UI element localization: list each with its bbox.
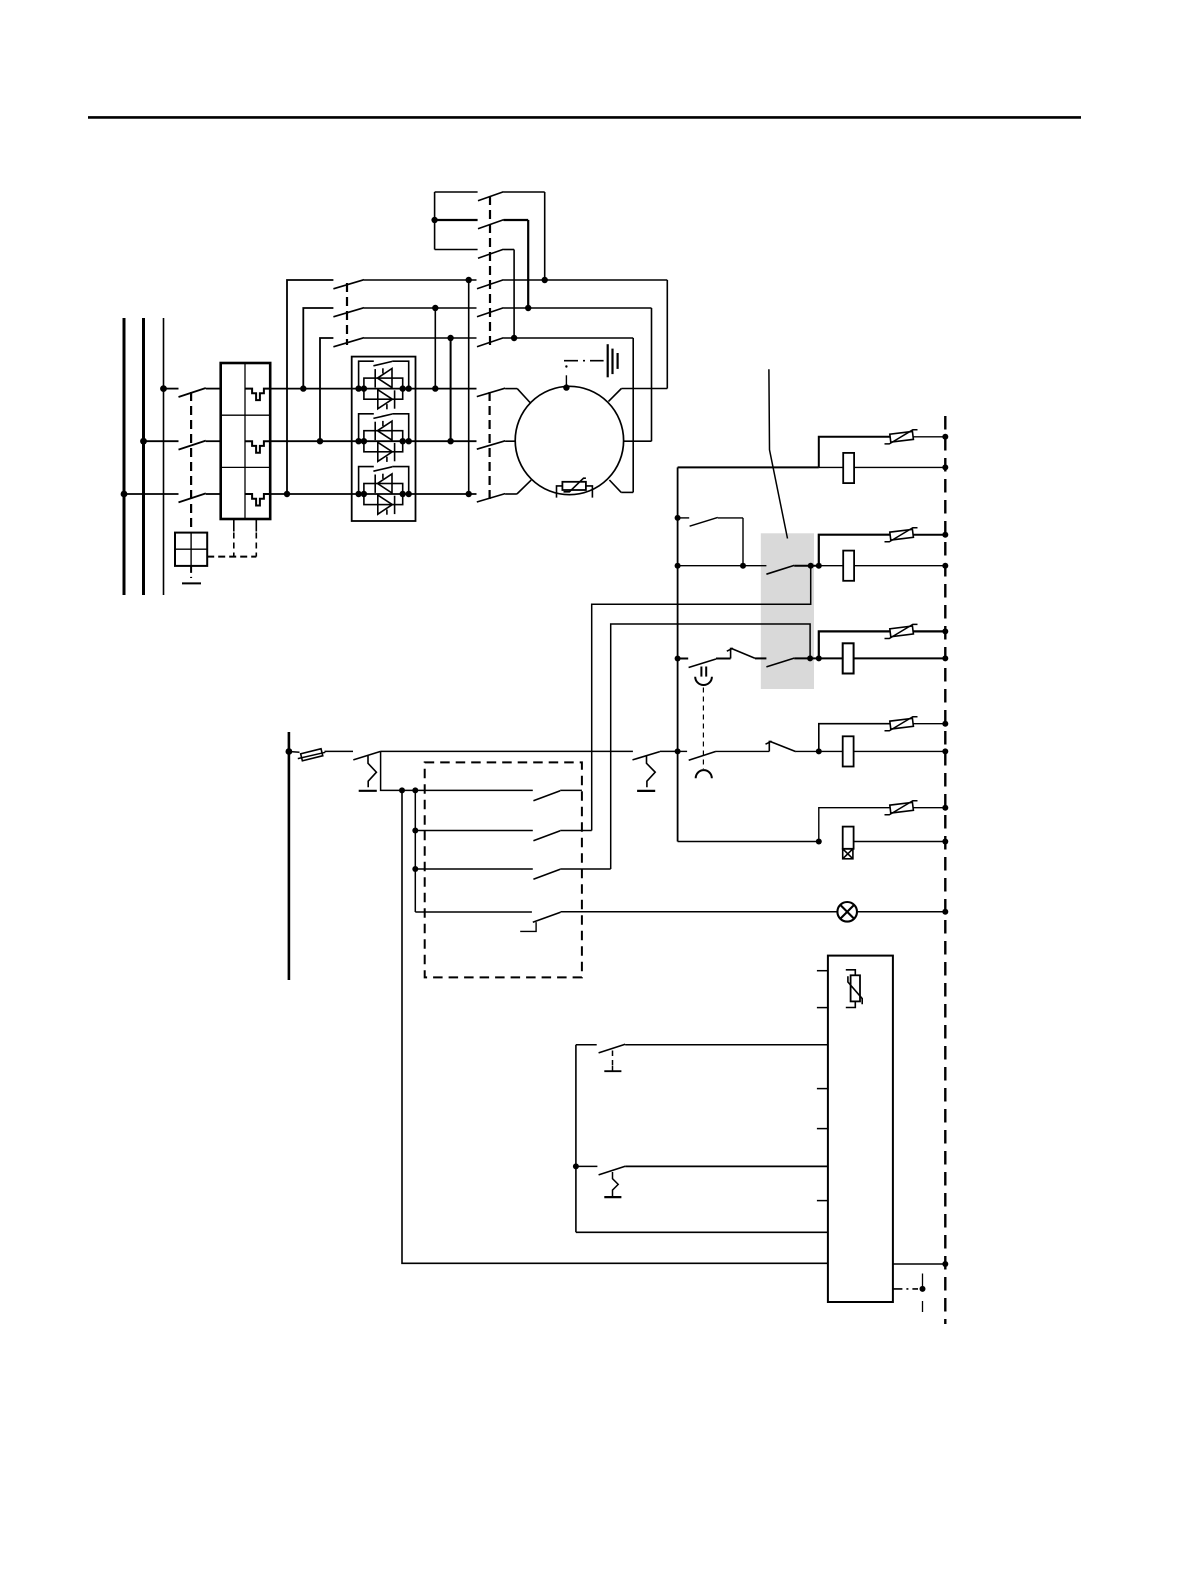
node rung4 (816, 748, 822, 754)
motor contactor linkage (dashed) (489, 392, 491, 503)
node program row2 (412, 828, 418, 834)
leader line to highlighted contacts (769, 369, 788, 538)
program switch unit (dashed box) (425, 762, 582, 977)
rung3 contact B (reverse) (727, 648, 767, 659)
varistor branch rung4 (819, 724, 891, 752)
node rail unit out (942, 1261, 948, 1267)
node K3 out2 (525, 305, 531, 311)
dash-dot line to chassis (564, 360, 604, 362)
varistor R3 (885, 624, 918, 638)
contactor K1 linkage (dashed) (346, 283, 348, 345)
rung4 wire left (678, 750, 688, 752)
rung3 coil wires (819, 657, 946, 659)
rung3 relay contact (highlighted) (766, 658, 818, 667)
wire fuse to thermostat (325, 750, 354, 752)
breaker trip unit (crossed square) (175, 533, 207, 566)
varistor branch rung2 (819, 535, 891, 566)
overload heater element 1 (245, 389, 270, 401)
riser triac out1 to row2 (434, 308, 436, 389)
thermal cutout T1 heater (359, 756, 377, 791)
node rung1b drop (740, 563, 746, 569)
neutral rail (dashed) (944, 416, 946, 1324)
thermostat actuator (zigzag T) (604, 1172, 621, 1197)
interlock drop rung2 to row 604 (592, 566, 811, 831)
buzzer coil K5 (843, 827, 854, 849)
rung2 wire left (678, 565, 767, 567)
contactor K2 pole 1 (477, 280, 667, 289)
wire phase2 to breaker (144, 440, 179, 442)
riser triac out2 to row3 (450, 338, 452, 441)
highlight band (gray) (761, 533, 814, 689)
node rail v1 (942, 434, 948, 440)
bottom branch rail (575, 1045, 577, 1233)
fuse F1 (298, 749, 326, 761)
varistor R1 (885, 430, 918, 444)
contactor K1 pole 1 (333, 280, 476, 289)
thermal cutout T1 contact (353, 751, 380, 760)
node phase1 riser (300, 385, 306, 391)
door switch (timed) (576, 1044, 828, 1053)
pressure switch actuator (cup) (695, 667, 712, 686)
varistor R4 (885, 717, 918, 731)
relay coil K4 (843, 736, 854, 766)
long control feed wire (381, 750, 633, 752)
riser motor bottom-right to K2 row3 (632, 338, 634, 492)
mains bus L3 (163, 318, 165, 595)
node rung2 a (808, 563, 814, 569)
motor contactor pole 1 (477, 388, 531, 403)
program timer unit (block) (828, 956, 893, 1302)
program contact S1 (425, 790, 582, 800)
rung1 coil wires (819, 466, 946, 468)
contactor K3 pole 2 (478, 220, 528, 229)
motor M (stator circle) (515, 386, 623, 494)
rung2 relay contact (highlighted) (766, 565, 818, 574)
program contact S4 (lamp) (415, 912, 560, 931)
node K1-K2 row2 (432, 305, 438, 311)
varistor R2 (885, 528, 918, 542)
node rail v2 (942, 532, 948, 538)
wire phase2 block to triac box (270, 440, 352, 442)
node rail v4 (942, 721, 948, 727)
varistor branch rung3 (819, 631, 891, 658)
rung4 contact B (reverse) (766, 741, 819, 752)
tap-changer U bracket (435, 192, 478, 250)
unit output wire to rail (893, 1263, 945, 1265)
node rail c1 (942, 464, 948, 470)
node triac out2 (447, 438, 453, 444)
contactor K2 pole 2 (477, 308, 652, 317)
node rail c2 (942, 563, 948, 569)
rung5 coil wires (854, 841, 946, 843)
pressure switch contact A (689, 659, 716, 668)
rung4 pressure contact (689, 751, 716, 760)
node program drop a (399, 787, 405, 793)
motor terminal mid-right (624, 440, 652, 442)
node triac out3 (466, 491, 472, 497)
triac cell 2 (phase 2) (352, 414, 416, 462)
varistor wire to rail rung2 (913, 534, 945, 536)
wire triac out2 (416, 440, 477, 442)
breaker QF pole 1 (179, 388, 221, 397)
varistor branch rung1 (819, 437, 891, 468)
overload trip link left (dashed) (233, 519, 235, 532)
wire T2 to rail (660, 750, 678, 752)
triac cell 1 (phase 1) (352, 361, 416, 409)
varistor wire to rail rung3 (913, 630, 945, 632)
lamp wire (561, 911, 838, 913)
wire triac out3 (416, 493, 477, 495)
rung4 coil wires (819, 750, 946, 752)
motor terminal bottom-right (609, 480, 633, 492)
control rail (677, 467, 679, 841)
node rung3 b (816, 655, 822, 661)
drop K3 out1 to row1 (544, 192, 546, 280)
contactor K2 pole 3 (477, 338, 633, 347)
bottom branch to unit (576, 1231, 828, 1233)
motor thermal protector (thermistor) (557, 478, 593, 497)
overload heater element 3 (245, 494, 270, 506)
breaker linkage (dashed) (190, 392, 192, 533)
node program row3 (412, 866, 418, 872)
node program drop b (412, 787, 418, 793)
trip unit actuator stem (182, 566, 201, 584)
node bottom branch (573, 1163, 579, 1169)
varistor wire to rail rung1 (913, 436, 945, 438)
node rail rung4 (675, 748, 681, 754)
node K1-K2 row3 (447, 335, 453, 341)
overload trip link horizontal (dashed) (207, 556, 256, 558)
node rail rung1b (675, 515, 681, 521)
contactor K1 pole 2 (333, 308, 476, 317)
wire phase1 to breaker (164, 388, 179, 390)
node rail v5 (942, 805, 948, 811)
contactor K3 pole 3 (478, 249, 514, 258)
unit terminal stub 4 (817, 1128, 828, 1130)
wire bus to fuse (289, 751, 300, 754)
soft starter module box (352, 357, 416, 521)
motor top lead (dash-dot riser) (565, 365, 567, 387)
interlock drop row 624 to rung3 (611, 624, 810, 869)
riser phase2 to contactor row3 (320, 338, 333, 441)
riser phase1 to contactor row2 (303, 308, 333, 389)
breaker QF pole 3 (179, 493, 221, 502)
node K1-K2 row1 (466, 277, 472, 283)
node rail c3 (942, 655, 948, 661)
program feed riser (414, 790, 416, 912)
thermal cutout T2 contact (633, 752, 660, 760)
relay coil K2 (843, 551, 854, 581)
unit internal thermistor (846, 970, 862, 1008)
node rail v3 (942, 628, 948, 634)
mains bus L1 (123, 318, 126, 595)
wire phase3 block to triac box (270, 493, 352, 495)
node fuse tap (286, 748, 293, 755)
riser phase3 to contactor row1 (287, 280, 333, 494)
node triac out1 (432, 385, 438, 391)
rung2 coil wires (819, 565, 946, 567)
overload trip link right (dashed) (255, 519, 257, 532)
rung1 feed wire (678, 466, 819, 468)
node L3 tap (160, 385, 167, 392)
rung3 wire mid (716, 658, 731, 660)
node U bracket middle (431, 217, 437, 223)
motor terminal top-right (609, 389, 668, 402)
wire phase3 to breaker (124, 493, 179, 495)
node rail lamp (942, 909, 948, 915)
riser motor mid-right to K2 row2 (651, 308, 653, 441)
node rail c4 (942, 748, 948, 754)
overload heater element 2 (245, 441, 270, 453)
node phase3 riser (284, 491, 290, 497)
drop K3 out3 to row3 (513, 250, 515, 339)
unit terminal stub 3 (817, 1088, 828, 1090)
varistor R5 (885, 801, 918, 815)
lamp wire to rail (857, 911, 946, 913)
thermostat switch (576, 1166, 828, 1175)
varistor branch rung5 (819, 808, 891, 842)
supply stub bus (288, 732, 291, 980)
node rail rung3 (675, 656, 681, 662)
drop to program rows (381, 751, 425, 790)
triac cell 3 (phase 3) (352, 467, 416, 515)
thermal cutout T2 heater (637, 756, 655, 791)
node L2 tap (140, 438, 147, 445)
motor contactor pole 3 (477, 480, 531, 502)
node rail rung2 (675, 563, 681, 569)
overload relay block (221, 363, 271, 519)
long return wire (402, 790, 828, 1263)
motor contactor pole 2 (477, 441, 515, 449)
door switch actuator (dashed T) (604, 1051, 621, 1072)
mains bus L2 (142, 318, 145, 595)
rung4 wire mid (716, 750, 769, 752)
chassis ground (frame) (608, 344, 618, 377)
riser motor top-right to K2 row1 (666, 280, 668, 389)
relay coil K3 (843, 643, 854, 673)
wire triac out1 (416, 388, 477, 390)
node rung2 b (816, 563, 822, 569)
node rail c5 (942, 839, 948, 845)
contactor K2/K3 shared linkage (dashed) (489, 196, 491, 345)
riser triac out3 to row1 (468, 280, 470, 494)
chassis link (dash-dot) (893, 1274, 925, 1313)
relay coil K1 (843, 453, 854, 483)
node L1 tap (121, 491, 128, 498)
rung1b auxiliary contact (678, 517, 743, 565)
unit terminal stub 1 (817, 970, 828, 972)
wire phase1 block to triac box (270, 388, 352, 390)
breaker QF pole 2 (179, 441, 221, 450)
node rung5 (816, 839, 822, 845)
varistor wire to rail rung4 (913, 723, 945, 725)
drop K3 out2 to row2 (527, 220, 529, 308)
buzzer X box (843, 849, 853, 859)
node K3 out1 (542, 277, 548, 283)
contactor K1 pole 3 (333, 338, 476, 347)
program contact S3 (415, 869, 610, 879)
page header rule (88, 116, 1081, 119)
rung3 stub from rail (678, 658, 689, 660)
contactor K3 pole 1 (478, 192, 545, 201)
unit terminal stub 2 (817, 1007, 828, 1009)
indicator lamp (837, 902, 857, 922)
pressure actuator cap (arc) (696, 770, 712, 778)
pressure switch link (dashed) (702, 688, 704, 770)
node K3 out3 (511, 335, 517, 341)
varistor wire to rail rung5 (913, 807, 945, 809)
program contact S2 (415, 831, 591, 841)
unit terminal stub 5 (817, 1200, 828, 1202)
node phase2 riser (317, 438, 323, 444)
node motor top (563, 384, 569, 390)
node rung3 a (807, 655, 813, 661)
rung5 feed from rail (678, 841, 819, 843)
